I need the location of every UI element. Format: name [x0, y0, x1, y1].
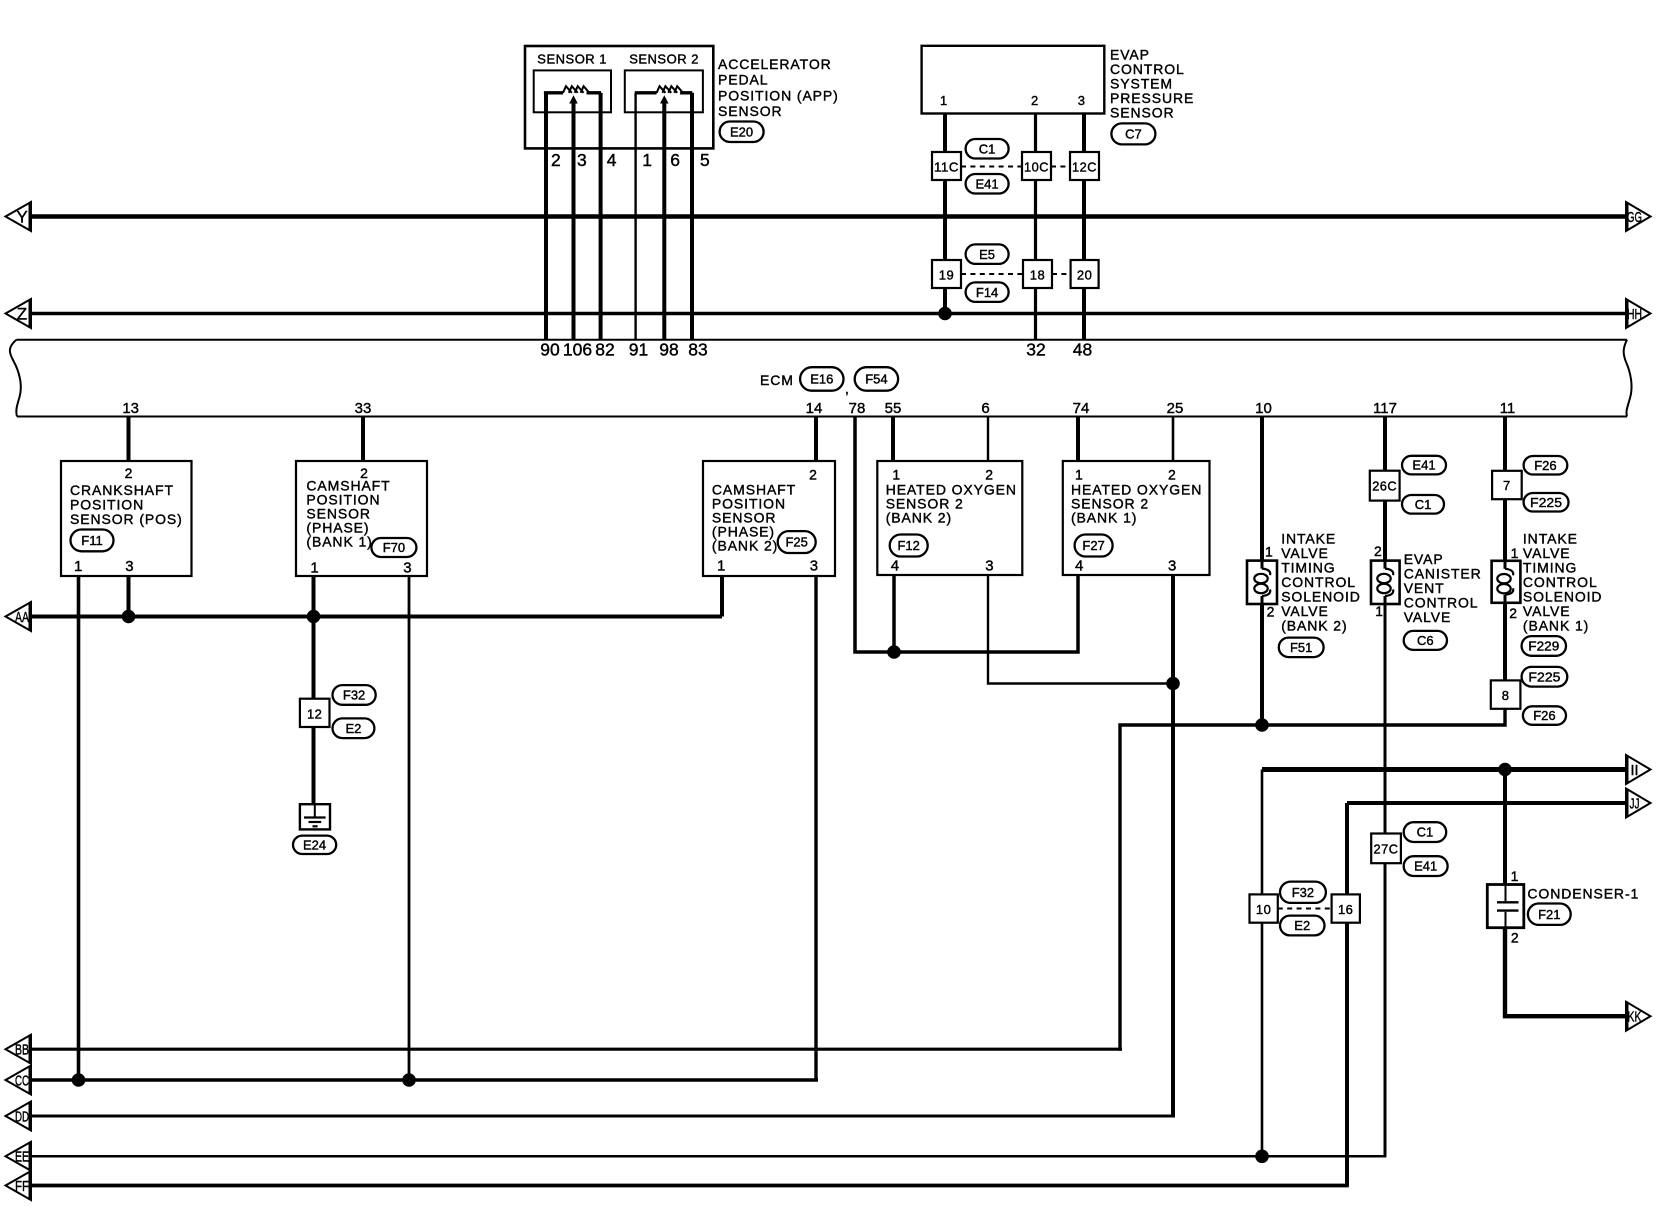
- svg-text:6: 6: [670, 150, 680, 170]
- svg-text:26C: 26C: [1372, 479, 1397, 494]
- camshaft position sensor phase bank1 F70: [296, 461, 427, 577]
- wire EVAP sensor pin1 to Z: [943, 114, 947, 314]
- svg-text:1: 1: [310, 560, 318, 577]
- off-page arrow GG: [1626, 202, 1651, 231]
- wire condenser pin1 to II: [1503, 770, 1507, 885]
- svg-text:10: 10: [1255, 400, 1272, 417]
- connector 8: [1491, 680, 1521, 708]
- svg-text:HH: HH: [1627, 306, 1642, 323]
- label F32 oval: [333, 685, 376, 705]
- svg-text:2: 2: [985, 466, 994, 482]
- label F32 oval2: [1280, 882, 1326, 903]
- intake valve timing control solenoid valve bank1: [1492, 531, 1603, 634]
- wire ECM 13 to crankshaft sensor pin2: [127, 417, 131, 462]
- wire APP pin2 to ECM 90: [544, 93, 548, 339]
- svg-text:2: 2: [1267, 604, 1276, 620]
- connector 10C: [1022, 152, 1051, 180]
- svg-text:ACCELERATOR: ACCELERATOR: [718, 56, 832, 72]
- svg-text:1: 1: [1511, 868, 1520, 884]
- svg-text:1: 1: [892, 466, 901, 482]
- svg-text:1: 1: [940, 93, 948, 108]
- svg-text:1: 1: [1075, 466, 1084, 482]
- dashed link 11C-10C-12C: [961, 166, 1070, 168]
- wire camshaft B1 pin1 to AA: [312, 576, 316, 617]
- label C1 oval3: [1404, 822, 1447, 842]
- svg-text:C1: C1: [1417, 825, 1434, 840]
- svg-text:3: 3: [985, 558, 993, 575]
- svg-text:(BANK 1): (BANK 1): [1523, 618, 1589, 634]
- svg-text:83: 83: [688, 340, 707, 360]
- wire ECM 25 to HO2S B1 pin2: [1172, 417, 1175, 462]
- svg-text:II: II: [1631, 762, 1639, 779]
- svg-text:F225: F225: [1528, 669, 1560, 684]
- off-page arrow Z: [6, 299, 32, 328]
- svg-text:2: 2: [551, 150, 561, 170]
- ECM U1 band: [10, 340, 1632, 417]
- label EVAP CONTROL SYSTEM PRESSURE SENSOR: [1110, 47, 1194, 145]
- svg-text:KK: KK: [1628, 1009, 1642, 1026]
- wire ground bus y726: [1120, 710, 1505, 1051]
- svg-text:90: 90: [540, 340, 560, 360]
- off-page arrow DD: [6, 1102, 32, 1131]
- condenser-1 capacitor F21: [1487, 868, 1639, 946]
- svg-text:CONDENSER-1: CONDENSER-1: [1527, 885, 1639, 901]
- ECM pin numbers bottom row: [122, 400, 1515, 417]
- intake valve timing control solenoid valve bank2 F51: [1247, 531, 1361, 657]
- svg-text:13: 13: [122, 400, 139, 417]
- svg-text:PEDAL: PEDAL: [718, 72, 768, 88]
- svg-text:F26: F26: [1534, 458, 1556, 473]
- svg-text:FF: FF: [15, 1178, 29, 1195]
- ECM pin numbers top row: [540, 340, 1092, 360]
- svg-text:16: 16: [1338, 902, 1353, 917]
- svg-text:F11: F11: [81, 533, 102, 548]
- heated oxygen sensor 2 bank1 F27: [1063, 461, 1210, 575]
- svg-text:VALVE: VALVE: [1404, 609, 1452, 625]
- svg-text:2: 2: [1031, 93, 1039, 108]
- wire II to connector10 to EE: [1261, 770, 1264, 1157]
- svg-text:F70: F70: [383, 540, 405, 555]
- svg-text:11: 11: [1500, 400, 1516, 417]
- svg-text:2: 2: [1168, 466, 1177, 482]
- wire camshaft B2 pin3 to CC: [814, 576, 817, 1082]
- svg-text:BB: BB: [15, 1042, 29, 1059]
- svg-text:1: 1: [1375, 603, 1384, 619]
- off-page arrow II: [1626, 755, 1651, 784]
- wire ECM 33 to camshaft B1 pin2: [361, 417, 365, 462]
- label E5 connector oval: [966, 244, 1009, 264]
- svg-text:20: 20: [1077, 268, 1092, 283]
- connector 20: [1071, 260, 1099, 288]
- APP sensor E20 assembly box: [525, 46, 713, 148]
- node junction pin3s: [1166, 677, 1180, 691]
- wire FF bus: [31, 1184, 1349, 1188]
- svg-text:3: 3: [125, 558, 133, 575]
- svg-text:F12: F12: [897, 538, 919, 553]
- svg-text:18: 18: [1030, 268, 1045, 283]
- wire EVAP sensor pin2 to ECM 32: [1034, 114, 1037, 340]
- svg-text:F225: F225: [1530, 495, 1562, 510]
- wire HO2S B2 pin4 to bus652: [892, 576, 896, 652]
- svg-text:4: 4: [607, 150, 617, 170]
- svg-text:106: 106: [563, 340, 592, 360]
- svg-text:10C: 10C: [1024, 160, 1049, 175]
- svg-text:3: 3: [1168, 558, 1176, 575]
- connector 18: [1023, 260, 1052, 288]
- wire KK bus: [1505, 927, 1626, 1016]
- svg-text:2: 2: [1511, 930, 1520, 946]
- APP sensor pin numbers: [551, 150, 710, 170]
- svg-text:E2: E2: [1294, 918, 1310, 933]
- wire HO2S B1 pin3 to DD: [1171, 576, 1175, 1118]
- svg-text:(BANK 1): (BANK 1): [1071, 510, 1137, 526]
- svg-text:4: 4: [891, 558, 899, 575]
- svg-text:EE: EE: [15, 1149, 29, 1166]
- svg-text:14: 14: [806, 400, 823, 417]
- svg-text:E24: E24: [303, 837, 326, 852]
- svg-text:2: 2: [125, 465, 134, 481]
- svg-text:32: 32: [1026, 340, 1045, 360]
- wire APP pin5 to ECM 83: [690, 93, 694, 339]
- node junction camB1 pin1-AA: [307, 610, 321, 624]
- svg-text:F51: F51: [1290, 640, 1312, 655]
- wire ECM 14 to camshaft B2 pin2: [814, 417, 818, 462]
- svg-text:5: 5: [700, 150, 710, 170]
- svg-text:C1: C1: [1415, 497, 1432, 512]
- wire ECM 74 to HO2S B1 pin1: [1076, 417, 1080, 462]
- label F225 oval2: [1522, 667, 1568, 687]
- wire HO2S B2 pin3 to B1 pin3: [988, 576, 1173, 684]
- svg-text:1: 1: [642, 150, 652, 170]
- ground E24: [293, 804, 336, 854]
- svg-text:E20: E20: [730, 124, 753, 139]
- dashed link 19-18-20: [961, 273, 1071, 275]
- svg-text:POSITION (APP): POSITION (APP): [718, 87, 839, 103]
- wire CC bus: [31, 1078, 818, 1081]
- svg-text:E41: E41: [976, 176, 999, 191]
- off-page arrow FF: [6, 1171, 32, 1200]
- node junction solB2-bus726: [1255, 718, 1269, 732]
- label C1 connector oval: [966, 139, 1009, 159]
- label C1 oval: [1402, 495, 1444, 514]
- node junction crank pin3-AA: [122, 610, 136, 624]
- off-page arrow KK: [1626, 1002, 1651, 1031]
- wire APP pin1 to ECM 91: [634, 93, 636, 339]
- wire solenoid B2 pin2 to bus726: [1260, 604, 1264, 725]
- svg-text:ECM: ECM: [760, 372, 794, 388]
- wire APP pin6 to ECM 98: [662, 103, 666, 339]
- svg-text:(BANK 2): (BANK 2): [1281, 618, 1347, 634]
- dashed link 10-16: [1278, 908, 1332, 910]
- svg-text:Y: Y: [16, 208, 27, 227]
- svg-text:,: ,: [845, 381, 850, 397]
- svg-text:82: 82: [595, 340, 614, 360]
- svg-text:SENSOR: SENSOR: [718, 103, 783, 119]
- wire crankshaft pin3 to AA: [127, 576, 131, 617]
- heated oxygen sensor 2 bank2 F12: [877, 461, 1022, 575]
- svg-text:1: 1: [1511, 545, 1520, 561]
- svg-text:E2: E2: [345, 721, 361, 736]
- wire camB1 pin1 below AA to ground: [312, 617, 316, 805]
- wire EVAP sensor pin3 to ECM 48: [1082, 114, 1086, 340]
- wire Z bus: [31, 312, 1626, 316]
- wire ECM 117 to vent valve pin2: [1383, 417, 1387, 561]
- svg-text:F32: F32: [343, 688, 365, 703]
- svg-text:C6: C6: [1417, 633, 1434, 648]
- svg-text:F21: F21: [1538, 907, 1560, 922]
- connector 19: [932, 260, 961, 288]
- svg-text:3: 3: [577, 150, 587, 170]
- svg-text:F27: F27: [1082, 538, 1104, 553]
- svg-text:AA: AA: [15, 609, 29, 626]
- wire II bus: [1262, 767, 1626, 772]
- svg-text:91: 91: [629, 340, 648, 360]
- svg-text:F54: F54: [865, 372, 887, 387]
- wire APP pin4 to ECM 82: [599, 93, 603, 339]
- svg-text:GG: GG: [1627, 209, 1642, 226]
- off-page arrow CC: [6, 1066, 32, 1095]
- potentiometer sensor1: [544, 86, 601, 148]
- svg-text:6: 6: [981, 400, 989, 417]
- node junction pin1-Z: [938, 307, 952, 321]
- svg-text:3: 3: [403, 560, 411, 577]
- off-page arrow JJ: [1626, 789, 1651, 818]
- EVAP control system pressure sensor C7 box: [922, 46, 1105, 114]
- off-page arrow EE: [6, 1142, 32, 1171]
- svg-text:E16: E16: [810, 372, 833, 387]
- label E2 oval2: [1280, 916, 1325, 936]
- wire JJ to connector16 to FF: [1345, 803, 1349, 1186]
- svg-text:CC: CC: [15, 1072, 29, 1089]
- svg-text:F229: F229: [1528, 639, 1559, 654]
- svg-text:JJ: JJ: [1630, 795, 1640, 812]
- svg-text:33: 33: [355, 400, 372, 417]
- svg-text:10: 10: [1256, 902, 1271, 917]
- connector 12: [300, 699, 330, 727]
- potentiometer sensor2: [635, 86, 693, 148]
- wire ECM 10 to solenoid B2 pin1: [1260, 417, 1264, 561]
- svg-text:E41: E41: [1412, 458, 1435, 473]
- svg-text:12C: 12C: [1072, 160, 1097, 175]
- connector 26C: [1370, 471, 1400, 501]
- svg-text:(BANK 2): (BANK 2): [886, 510, 952, 526]
- wire solenoid B1 pin2 to conn8: [1503, 603, 1507, 710]
- svg-text:C7: C7: [1125, 127, 1142, 142]
- crankshaft position sensor F11: [61, 461, 192, 576]
- svg-text:(BANK 2): (BANK 2): [712, 538, 778, 554]
- label E41 oval: [1402, 456, 1446, 475]
- svg-text:98: 98: [659, 340, 678, 360]
- wire Y bus: [31, 214, 1626, 219]
- svg-text:F26: F26: [1533, 708, 1555, 723]
- svg-text:117: 117: [1373, 400, 1397, 417]
- svg-text:1: 1: [1265, 544, 1274, 560]
- svg-text:DD: DD: [15, 1108, 29, 1125]
- wire camshaft B2 pin1 to AA: [720, 576, 724, 617]
- node junction HO2S-B2 pin4: [887, 645, 901, 659]
- wire EE bus: [31, 1155, 1386, 1158]
- wire DD bus: [31, 1115, 1175, 1118]
- connector 12C: [1070, 152, 1099, 180]
- svg-text:2: 2: [1509, 605, 1518, 621]
- svg-text:E5: E5: [979, 247, 995, 262]
- wire BB bus: [31, 1048, 1122, 1051]
- svg-text:2: 2: [1374, 543, 1383, 559]
- svg-text:11C: 11C: [934, 160, 959, 175]
- label F225 oval: [1524, 493, 1569, 512]
- node junction II-col - EE: [1255, 1150, 1269, 1164]
- svg-text:78: 78: [849, 400, 866, 417]
- svg-text:C1: C1: [979, 141, 996, 156]
- off-page arrow BB: [6, 1035, 32, 1064]
- wire ECM 11 to solenoid B1 pin1: [1503, 417, 1507, 561]
- label F14 connector oval: [966, 282, 1009, 302]
- connector 16: [1332, 894, 1360, 922]
- svg-text:7: 7: [1503, 478, 1511, 493]
- svg-text:SENSOR (POS): SENSOR (POS): [70, 511, 183, 527]
- svg-text:4: 4: [1075, 558, 1083, 575]
- off-page arrow HH: [1626, 299, 1651, 328]
- svg-text:SENSOR 1: SENSOR 1: [537, 52, 607, 67]
- svg-text:E41: E41: [1414, 859, 1437, 874]
- label ACCELERATOR PEDAL POSITION (APP) SENSOR: [718, 56, 839, 142]
- connector 11C: [932, 152, 961, 180]
- wire camshaft B1 pin3 to CC: [408, 576, 411, 1080]
- label E2 oval: [333, 718, 375, 738]
- svg-text:(BANK 1): (BANK 1): [306, 534, 372, 550]
- wire vent valve pin1 to 27C to EE: [1384, 604, 1387, 1156]
- evap canister vent control valve C6: [1371, 543, 1482, 650]
- svg-text:Z: Z: [17, 305, 27, 324]
- node junction crank pin1-CC: [72, 1073, 86, 1087]
- wire ECM 55 to HO2S B2 pin1: [891, 417, 895, 462]
- connector 10: [1250, 894, 1278, 922]
- label E41 connector oval: [966, 174, 1009, 194]
- svg-text:SENSOR 2: SENSOR 2: [629, 52, 699, 67]
- label E41 oval3: [1404, 856, 1448, 876]
- off-page arrow AA: [6, 602, 32, 631]
- svg-text:12: 12: [307, 706, 322, 721]
- svg-text:F14: F14: [976, 285, 998, 300]
- wire APP pin3 to ECM 106: [572, 103, 576, 339]
- wire ECM 6 to HO2S B2 pin2: [987, 417, 989, 462]
- svg-text:27C: 27C: [1374, 841, 1399, 856]
- connector 27C: [1371, 834, 1401, 864]
- svg-text:1: 1: [74, 558, 82, 575]
- svg-text:3: 3: [810, 558, 818, 575]
- svg-text:SENSOR: SENSOR: [1110, 105, 1175, 121]
- svg-text:74: 74: [1073, 400, 1090, 417]
- wire ECM 78 to HO2S pin4 bus: [855, 417, 1078, 653]
- wire AA bus: [31, 615, 722, 619]
- off-page arrow Y: [6, 202, 32, 231]
- label F229 oval: [1522, 636, 1566, 656]
- svg-text:55: 55: [885, 400, 902, 417]
- svg-text:19: 19: [939, 268, 954, 283]
- svg-text:F25: F25: [785, 535, 807, 550]
- svg-text:48: 48: [1073, 340, 1092, 360]
- svg-text:3: 3: [1078, 93, 1086, 108]
- label F26 oval2: [1523, 706, 1566, 725]
- svg-text:2: 2: [809, 466, 818, 482]
- node junction camB1 pin3-CC: [402, 1073, 416, 1087]
- svg-text:F32: F32: [1292, 885, 1314, 900]
- node junction condenser-II: [1498, 763, 1512, 777]
- label F26 oval: [1524, 456, 1568, 475]
- wire crankshaft pin1 to CC: [77, 576, 81, 1080]
- svg-text:1: 1: [717, 558, 725, 575]
- svg-text:25: 25: [1167, 400, 1184, 417]
- camshaft position sensor phase bank2 F25: [703, 461, 835, 576]
- svg-text:8: 8: [1502, 688, 1510, 703]
- wire JJ bus: [1347, 801, 1626, 805]
- connector 7: [1492, 471, 1522, 499]
